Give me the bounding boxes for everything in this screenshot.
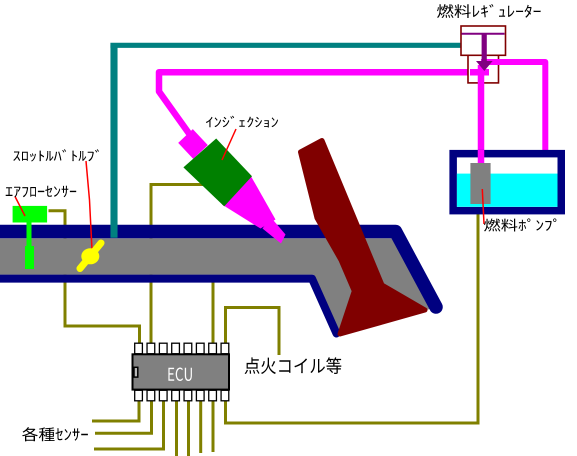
- ECU top pins 1-8: [135, 343, 229, 354]
- wire: ECU bottom pin5 down (olive): [187, 401, 190, 456]
- fuel line magenta into regulator: [470, 69, 489, 76]
- airflow sensor (green): [13, 206, 48, 269]
- wire: ECU bottom pin7 down (olive): [212, 401, 215, 452]
- wire: ECU bottom pin4 down (olive): [175, 401, 178, 456]
- injector tip (magenta strip into pipe): [263, 218, 286, 244]
- ECU bottom pins 1-8: [135, 390, 229, 401]
- label: various sensors (各種センサー): [22, 427, 88, 441]
- wire: ECU bottom pin2 to sensors left (olive): [95, 401, 152, 433]
- label: ignition coil etc (点火コイル等): [245, 357, 342, 374]
- injector nozzle cone (magenta): [222, 175, 276, 229]
- wire: airflow sensor to ECU pin1 (olive, passes behind pipe): [49, 211, 140, 343]
- fuel supply line magenta: regulator to injector: [159, 72, 489, 137]
- red pointer line: airflow sensor label: [15, 197, 25, 217]
- wire: ECU bottom pin3 to sensors left (olive): [94, 401, 164, 449]
- intake pipe gray interior: [0, 238, 436, 333]
- ECU text label: [168, 368, 192, 382]
- intake pipe top wall (navy): [0, 232, 436, 308]
- red pointer line: injector label: [222, 129, 236, 160]
- magenta pipe into pump (over tank border): [478, 150, 485, 163]
- label: fuel regulator (燃料レギュレーター): [437, 4, 541, 18]
- wire: ECU pin8 top to ignition coil label (olive): [226, 308, 280, 356]
- injector body (dark green): [183, 139, 252, 207]
- fuel feed line magenta: pump to regulator: [478, 65, 485, 163]
- intake pipe bottom wall (navy): [0, 279, 337, 334]
- fuel return line magenta: regulator to tank (right): [481, 62, 545, 157]
- teal vacuum line from pipe to regulator: [110, 45, 117, 238]
- regulator internal arrow (purple): [462, 34, 505, 71]
- intake valve (maroon stem and cone): [301, 141, 426, 335]
- injector neck (magenta): [186, 136, 201, 152]
- ECU notch: [134, 367, 138, 377]
- wire: ECU bottom pin6 down (olive): [199, 401, 202, 453]
- label: throttle valve (スロットルバルブ): [13, 149, 99, 161]
- wire: ECU bottom pin8 to fuel pump (olive): [226, 213, 479, 423]
- label: fuel pump (燃料ポンプ): [484, 218, 556, 231]
- wire: ECU bottom pin1 to sensors left (olive): [92, 401, 139, 421]
- ECU body: [133, 354, 230, 389]
- red pointer line: throttle valve label: [86, 161, 92, 250]
- label: airflow sensor (エアフローセンサー): [6, 186, 77, 198]
- fuel pump (gray): [470, 163, 490, 204]
- throttle valve (yellow butterfly): [80, 243, 101, 269]
- wire: injector to ECU pin2 (olive, passes behind pipe): [151, 185, 205, 344]
- red pointer line: fuel pump label: [482, 189, 484, 224]
- wire: pipe sensor to ECU pin7 (olive): [212, 282, 215, 343]
- fuel tank (navy border): [453, 154, 561, 211]
- fuel regulator upper box (maroon outline): [461, 26, 506, 55]
- label: injector (インジェクション): [206, 116, 278, 128]
- fuel in tank (cyan): [457, 174, 558, 207]
- fuel regulator lower box (maroon outline): [468, 55, 499, 83]
